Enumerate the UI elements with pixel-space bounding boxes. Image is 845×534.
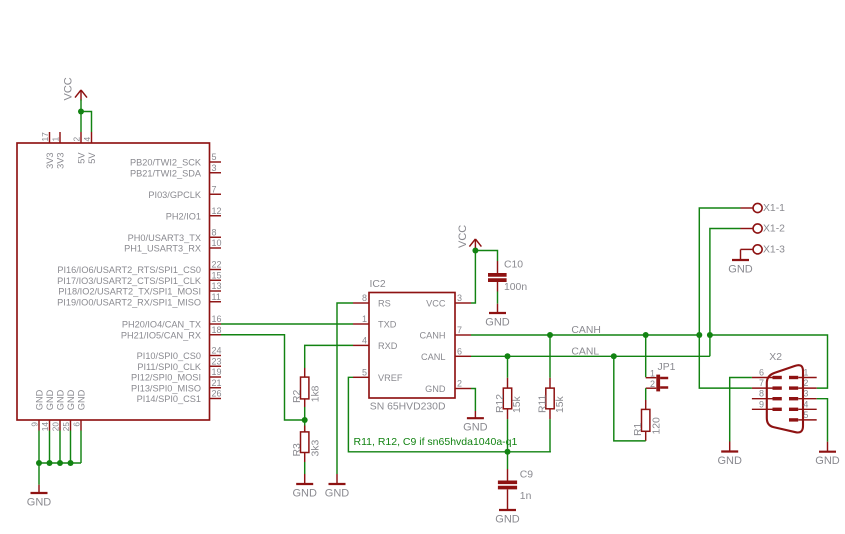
svg-text:PI17/IO3/USART2_CTS/SPI1_CLK: PI17/IO3/USART2_CTS/SPI1_CLK: [57, 276, 202, 286]
wire VCC to C10: [475, 251, 497, 262]
svg-text:2: 2: [457, 379, 462, 389]
U1 top pin 1 (3V3) stub: [51, 132, 66, 169]
svg-text:GND: GND: [77, 389, 87, 410]
svg-text:PH1_USART3_RX: PH1_USART3_RX: [124, 244, 201, 254]
IC2 pin 2 (GND): [425, 379, 471, 395]
svg-text:X1-3: X1-3: [763, 245, 785, 256]
svg-text:PI13/SPI0_MISO: PI13/SPI0_MISO: [131, 383, 201, 393]
svg-text:2: 2: [803, 378, 808, 388]
svg-text:PH2/IO1: PH2/IO1: [166, 211, 201, 221]
U1 pin 18 (PH21/IO5/CAN_RX): [121, 325, 222, 341]
svg-text:5V: 5V: [87, 152, 97, 164]
svg-text:1k8: 1k8: [310, 385, 321, 402]
X2 pin 2: [789, 378, 817, 388]
wire IC2 GND pin to ground: [471, 389, 475, 412]
junction dot GND bus: [36, 460, 42, 466]
svg-text:8: 8: [759, 389, 764, 399]
svg-text:6: 6: [759, 368, 764, 378]
svg-text:15k: 15k: [555, 395, 566, 413]
wire CANL to R1: [614, 356, 646, 441]
wire CANH to JP1: [645, 335, 647, 377]
svg-text:GND: GND: [45, 389, 55, 410]
svg-text:PI12/SPI0_MOSI: PI12/SPI0_MOSI: [131, 373, 201, 383]
svg-text:10: 10: [212, 238, 222, 248]
svg-text:13: 13: [212, 281, 222, 291]
junction dot CANL-R12: [505, 353, 511, 359]
svg-text:GND: GND: [495, 514, 520, 526]
wire VCC branch to pin4: [81, 112, 92, 133]
svg-text:R11: R11: [537, 394, 548, 413]
ground symbol C10: [485, 304, 510, 329]
svg-text:X1-2: X1-2: [763, 224, 785, 235]
X2 pin 1: [789, 368, 817, 378]
wire JP1 to R1: [645, 388, 647, 400]
svg-text:7: 7: [457, 325, 462, 335]
resistor R3 3k3: [292, 420, 321, 462]
svg-text:PH21/IO5/CAN_RX: PH21/IO5/CAN_RX: [121, 330, 201, 340]
svg-text:26: 26: [212, 389, 222, 399]
U1 pin 21 (PI13/SPI0_MISO): [131, 378, 221, 394]
svg-text:PI19/IO0/USART2_RX/SPI1_MISO: PI19/IO0/USART2_RX/SPI1_MISO: [57, 297, 201, 307]
svg-text:R3: R3: [292, 443, 303, 457]
resistor R12 15k: [495, 356, 523, 452]
svg-text:PI10/SPI0_CS0: PI10/SPI0_CS0: [137, 351, 201, 361]
svg-text:1: 1: [51, 137, 61, 142]
svg-text:VCC: VCC: [457, 225, 469, 248]
connector X1-1: [741, 203, 786, 214]
svg-text:PI18/IO2/USART2_TX/SPI1_MOSI: PI18/IO2/USART2_TX/SPI1_MOSI: [58, 287, 201, 297]
svg-text:120: 120: [651, 417, 662, 435]
wire CANH: [471, 334, 699, 336]
U1 pin 19 (PI12/SPI0_MOSI): [131, 367, 221, 383]
svg-text:PB20/TWI2_SCK: PB20/TWI2_SCK: [130, 158, 202, 168]
svg-text:GND: GND: [27, 497, 52, 509]
wire VCC to pin3: [471, 249, 475, 304]
junction dot VCC2: [472, 248, 478, 254]
U1 pin 12 (PH2/IO1): [166, 206, 222, 222]
svg-text:R2: R2: [292, 389, 303, 403]
U1 bottom pin 20 (GND) stub: [51, 389, 66, 463]
resistor R2 1k8: [292, 368, 321, 407]
svg-text:VREF: VREF: [378, 373, 403, 383]
connector X2 body: [767, 352, 803, 432]
VCC symbol (IC2): [457, 225, 481, 250]
junction dot GND bus: [68, 460, 74, 466]
U1 bottom pin 6 (GND) stub: [72, 389, 87, 463]
wire X2 pin6 to ground: [730, 378, 752, 442]
junction dot CANL-X1-2: [707, 332, 713, 338]
svg-text:PI11/SPI0_CLK: PI11/SPI0_CLK: [137, 362, 202, 372]
svg-text:VCC: VCC: [426, 299, 446, 309]
op-amp IC2 body SN65HVD230D: [369, 279, 455, 412]
wire GND drop: [38, 463, 40, 485]
svg-text:14: 14: [40, 422, 50, 432]
svg-text:22: 22: [212, 260, 222, 270]
svg-text:16: 16: [212, 314, 222, 324]
X2 pin 5: [789, 410, 817, 420]
svg-text:1: 1: [650, 369, 655, 379]
wire RS to ground: [337, 303, 353, 474]
wire VCC to pin2: [80, 100, 82, 133]
U1 pin 24 (PI10/SPI0_CS0): [137, 346, 222, 362]
ground symbol IC2: [463, 411, 488, 434]
svg-text:18: 18: [212, 325, 222, 335]
IC2 pin 6 (CANL): [421, 346, 471, 362]
svg-text:1: 1: [803, 368, 808, 378]
svg-text:GND: GND: [35, 389, 45, 410]
svg-text:6: 6: [457, 346, 462, 356]
svg-text:15k: 15k: [512, 395, 523, 413]
svg-text:GND: GND: [463, 422, 488, 434]
U1 pin 16 (PH20/IO4/CAN_TX): [122, 314, 222, 330]
wire CANL right segment: [710, 335, 828, 388]
svg-text:JP1: JP1: [658, 362, 676, 373]
U1 top pin 2 (5V) stub: [72, 132, 87, 164]
junction dot divider node: [302, 417, 308, 423]
svg-text:24: 24: [212, 346, 222, 356]
U1 top pin 4 (5V) stub: [82, 132, 97, 164]
connector X1-2: [741, 224, 786, 235]
svg-text:C10: C10: [504, 260, 523, 271]
svg-text:4: 4: [803, 399, 808, 409]
ground symbol X2 left: [717, 442, 742, 468]
U1 bottom pin 14 (GND) stub: [40, 389, 55, 463]
svg-text:CANL: CANL: [571, 346, 599, 357]
U1 pin 15 (PI17/IO3/USART2_CTS/SPI1_CLK): [57, 270, 221, 286]
svg-text:1n: 1n: [520, 491, 532, 502]
ground symbol X1-3: [728, 250, 753, 276]
svg-text:1: 1: [362, 314, 367, 324]
jumper JP1: [646, 362, 676, 391]
svg-text:C9: C9: [520, 470, 534, 481]
IC2 pin 7 (CANH): [419, 325, 471, 341]
svg-text:8: 8: [212, 227, 217, 237]
U1 pin 22 (PI16/IO6/USART2_RTS/SPI1_CS0): [57, 260, 221, 276]
svg-text:PI14/SPI0_CS1: PI14/SPI0_CS1: [137, 394, 201, 404]
U1 pin 3 (PB21/TWI2_SDA): [130, 163, 221, 179]
VCC symbol (top): [63, 77, 88, 100]
svg-text:100n: 100n: [504, 282, 527, 293]
svg-text:5V: 5V: [77, 152, 87, 164]
svg-text:3V3: 3V3: [56, 153, 66, 169]
svg-text:PH0/USART3_TX: PH0/USART3_TX: [128, 233, 201, 243]
U1 pin 7 (PI03/GPCLK): [148, 184, 221, 200]
wire CANH to X2 pin7: [699, 335, 752, 388]
junction dot CANL-R1: [611, 353, 617, 359]
wire CAN_TX net (pin16 to IC2 TXD): [221, 323, 353, 325]
U1 top pin 17 (3V3) stub: [40, 132, 55, 169]
svg-text:GND: GND: [717, 455, 742, 467]
svg-text:R1: R1: [633, 422, 644, 436]
U1 pin 10 (PH1_USART3_RX): [124, 238, 221, 254]
wire RXD node: [305, 345, 353, 368]
U1 pin 5 (PB20/TWI2_SCK): [130, 152, 221, 168]
svg-text:20: 20: [51, 422, 61, 432]
junction dot CANH-JP1: [643, 332, 649, 338]
svg-text:PI16/IO6/USART2_RTS/SPI1_CS0: PI16/IO6/USART2_RTS/SPI1_CS0: [57, 265, 201, 275]
IC U1 (MCU) body: [17, 143, 210, 420]
wire C10 to ground: [497, 292, 499, 304]
svg-text:RS: RS: [378, 299, 391, 309]
svg-text:5: 5: [803, 410, 808, 420]
svg-text:7: 7: [212, 184, 217, 194]
svg-text:3: 3: [457, 293, 462, 303]
IC2 pin 3 (VCC): [426, 293, 471, 309]
wire CANH to X1-1: [699, 208, 740, 335]
svg-text:GND: GND: [56, 389, 66, 410]
junction dot GND bus: [57, 460, 63, 466]
svg-text:3: 3: [803, 389, 808, 399]
svg-text:R11, R12, C9 if sn65hvda1040a-: R11, R12, C9 if sn65hvda1040a-q1: [354, 436, 518, 448]
svg-text:RXD: RXD: [378, 341, 398, 351]
svg-text:2: 2: [650, 379, 655, 389]
connector X1-3: [741, 245, 786, 256]
svg-text:CANH: CANH: [571, 325, 600, 336]
wire VREF: [348, 377, 551, 452]
svg-text:2: 2: [72, 137, 82, 142]
svg-text:21: 21: [212, 378, 222, 388]
svg-text:VCC: VCC: [63, 77, 75, 100]
svg-text:GND: GND: [815, 455, 840, 467]
svg-text:25: 25: [61, 422, 71, 432]
X2 pin 8: [752, 389, 782, 399]
junction dot CANH-X1-1: [696, 332, 702, 338]
wire CAN_RX net (pin18 to divider): [221, 335, 305, 420]
junction dot VREF-C9: [505, 449, 511, 455]
svg-text:9: 9: [30, 422, 40, 427]
svg-text:3: 3: [212, 163, 217, 173]
ground symbol R3: [292, 474, 317, 500]
U1 pin 13 (PI18/IO2/USART2_TX/SPI1_MOSI): [58, 281, 221, 297]
svg-text:15: 15: [212, 270, 222, 280]
svg-text:19: 19: [212, 367, 222, 377]
ground symbol C9: [495, 500, 520, 526]
svg-text:7: 7: [759, 378, 764, 388]
U1 pin 23 (PI11/SPI0_CLK): [137, 356, 221, 372]
wire GND bus under U1: [39, 462, 81, 464]
svg-text:CANL: CANL: [421, 352, 446, 362]
svg-text:PI03/GPCLK: PI03/GPCLK: [148, 190, 201, 200]
wire R3 to ground: [304, 462, 306, 474]
X2 pin 7: [752, 378, 782, 388]
X2 pin 3: [789, 389, 817, 399]
svg-text:GND: GND: [728, 264, 753, 276]
svg-text:12: 12: [212, 206, 222, 216]
svg-text:5: 5: [212, 152, 217, 162]
resistor R1 120: [633, 400, 662, 441]
svg-text:GND: GND: [66, 389, 76, 410]
svg-text:3k3: 3k3: [310, 440, 321, 457]
svg-text:X1-1: X1-1: [763, 203, 785, 214]
junction dot CANH-R11: [547, 332, 553, 338]
svg-text:PB21/TWI2_SDA: PB21/TWI2_SDA: [130, 168, 202, 178]
junction dot VCC: [78, 109, 84, 115]
ground symbol X2 right: [815, 442, 840, 468]
svg-text:3V3: 3V3: [45, 153, 55, 169]
svg-text:6: 6: [72, 422, 82, 427]
U1 pin 11 (PI19/IO0/USART2_RX/SPI1_MISO): [57, 292, 221, 308]
U1 pin 8 (PH0/USART3_TX): [128, 227, 221, 243]
svg-text:GND: GND: [485, 317, 510, 329]
wire CANL to X1-2: [710, 229, 741, 357]
svg-text:X2: X2: [769, 352, 782, 363]
svg-text:TXD: TXD: [378, 320, 397, 330]
svg-text:CANH: CANH: [419, 331, 445, 341]
IC2 pin 1 (TXD): [353, 314, 397, 330]
svg-text:IC2: IC2: [370, 279, 386, 290]
svg-text:4: 4: [362, 335, 367, 345]
capacitor C9 1n: [498, 452, 533, 502]
svg-text:GND: GND: [325, 488, 350, 500]
IC2 pin 4 (RXD): [353, 335, 398, 351]
svg-text:SN 65HVD230D: SN 65HVD230D: [370, 401, 446, 412]
svg-text:GND: GND: [425, 384, 446, 394]
svg-text:R12: R12: [495, 394, 506, 413]
wire X2 pin3 to ground: [817, 399, 828, 442]
svg-text:17: 17: [40, 132, 50, 142]
svg-text:11: 11: [212, 292, 221, 302]
svg-text:9: 9: [759, 399, 764, 409]
svg-text:5: 5: [362, 367, 367, 377]
X2 pin 6: [752, 368, 782, 378]
resistor R11 15k: [537, 335, 566, 452]
ground symbol U1: [27, 485, 52, 509]
X2 pin 4: [789, 399, 817, 409]
wire CANL: [471, 355, 710, 357]
IC2 pin 8 (RS): [353, 293, 391, 309]
U1 bottom pin 25 (GND) stub: [61, 389, 76, 463]
svg-text:4: 4: [82, 137, 92, 142]
X2 pin 9: [752, 399, 782, 409]
U1 pin 26 (PI14/SPI0_CS1): [137, 389, 222, 405]
svg-text:8: 8: [362, 293, 367, 303]
wire R2 to node: [304, 407, 306, 420]
IC2 pin 5 (VREF): [353, 367, 403, 383]
capacitor C10 100n: [488, 260, 527, 294]
svg-text:23: 23: [212, 356, 222, 366]
svg-text:GND: GND: [292, 488, 317, 500]
U1 bottom pin 9 (GND) stub: [30, 389, 45, 463]
svg-text:PH20/IO4/CAN_TX: PH20/IO4/CAN_TX: [122, 320, 201, 330]
ground symbol RS: [325, 474, 350, 500]
junction dot GND bus: [47, 460, 53, 466]
